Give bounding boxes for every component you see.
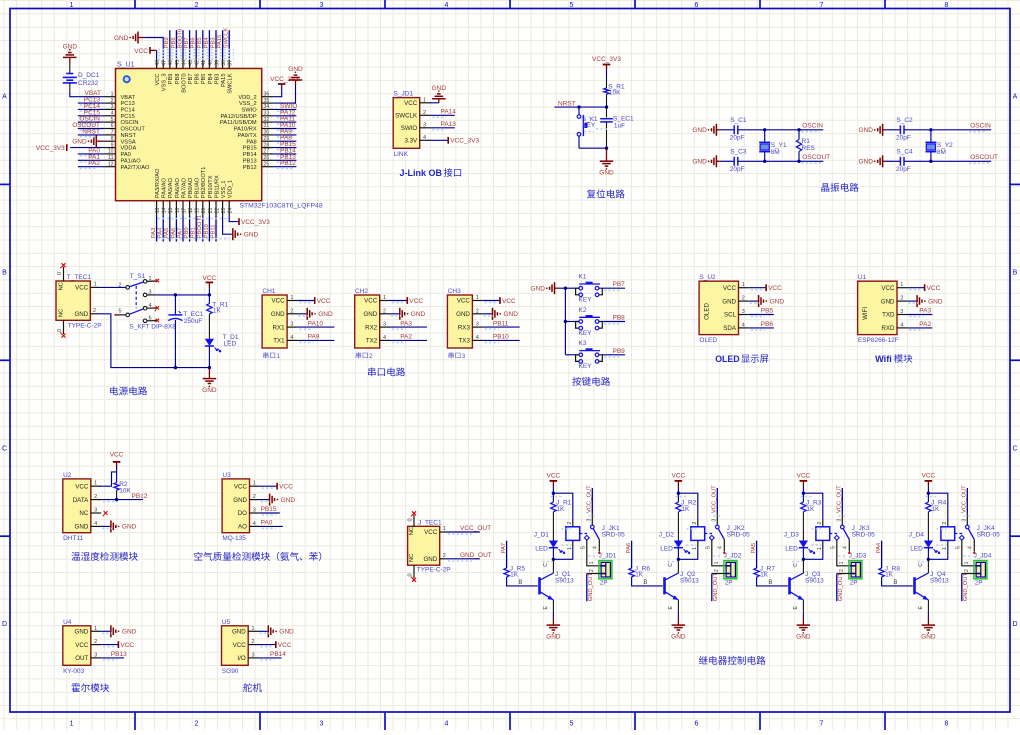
svg-text:48: 48: [155, 60, 161, 66]
switch stub pin 6 (nc): [147, 320, 157, 322]
svg-text:24: 24: [228, 208, 234, 214]
wire emitter to ground: [552, 600, 554, 612]
net label PA14: [430, 114, 455, 116]
net VCC at top (pin 48): [150, 49, 157, 51]
svg-text:BOOT0: BOOT0: [177, 29, 183, 49]
svg-text:RX1: RX1: [273, 324, 286, 331]
net label OSCOUT + wire: [78, 128, 104, 130]
svg-text:TX2: TX2: [366, 338, 378, 345]
resistor J_R2 1K: [677, 493, 679, 502]
net label PA10: [297, 326, 334, 328]
svg-text:4: 4: [253, 521, 256, 527]
svg-text:PB1: PB1: [191, 227, 197, 238]
pin 4 RXD: [897, 327, 907, 329]
svg-text:GND: GND: [411, 311, 426, 318]
svg-text:PA2/TX/AO: PA2/TX/AO: [121, 165, 151, 171]
svg-text:PA0: PA0: [121, 152, 131, 158]
svg-text:4: 4: [718, 546, 724, 549]
svg-text:35: 35: [264, 98, 270, 104]
wire base: [507, 577, 538, 586]
svg-text:2: 2: [94, 494, 97, 500]
power ground: [101, 630, 110, 632]
caption button circuit: [572, 377, 581, 386]
wire base: [882, 577, 913, 586]
svg-text:VCC: VCC: [155, 74, 161, 86]
svg-text:20pF: 20pF: [896, 166, 911, 173]
svg-text:4: 4: [476, 335, 479, 341]
svg-text:STM32F103C8T6_LQFP48: STM32F103C8T6_LQFP48: [240, 203, 323, 210]
svg-text:GND: GND: [796, 633, 811, 640]
svg-text:PB5: PB5: [761, 308, 774, 315]
svg-text:A: A: [1013, 94, 1018, 101]
svg-text:PA4/AO: PA4/AO: [162, 177, 168, 198]
svg-text:SWIO: SWIO: [242, 108, 258, 114]
svg-text:J_JD3: J_JD3: [849, 553, 867, 560]
pin 2 VCC: [248, 644, 258, 646]
svg-text:1: 1: [817, 547, 823, 550]
net label PA1 + wire: [78, 159, 104, 161]
power ground: [907, 300, 916, 302]
svg-text:VCC: VCC: [457, 298, 471, 305]
svg-text:WIFI: WIFI: [862, 307, 869, 320]
svg-text:31: 31: [264, 123, 270, 129]
svg-text:1: 1: [423, 97, 426, 103]
pin 1 VCC: [91, 485, 101, 487]
net label PA11 + wire: [273, 121, 296, 123]
svg-text:3: 3: [320, 721, 324, 728]
svg-text:GND: GND: [72, 139, 87, 146]
svg-text:PA7: PA7: [177, 228, 183, 239]
svg-text:GND: GND: [279, 629, 294, 636]
key S_K1 KEY: [577, 105, 580, 108]
wire VCC node to relay coil: [678, 493, 697, 520]
module U5 SG90 servo: [222, 626, 249, 666]
svg-text:VCC_OUT: VCC_OUT: [460, 525, 491, 532]
svg-text:GND: GND: [722, 298, 736, 305]
svg-text:GND: GND: [114, 35, 129, 42]
net label PB7 + wire: [189, 30, 191, 58]
svg-text:1K: 1K: [885, 571, 894, 578]
no-connect stub bottom of J_TEC1: [413, 565, 415, 578]
svg-text:27: 27: [264, 149, 270, 155]
svg-text:PB8: PB8: [613, 315, 626, 322]
svg-text:2: 2: [964, 569, 970, 572]
no-connect stub bottom of T_TEC1: [63, 320, 65, 334]
net label PB15 + wire: [273, 147, 296, 149]
pin 18 PB0/AO: [189, 201, 191, 216]
svg-text:43: 43: [188, 60, 194, 66]
power ground at top (pin 47 VSS_3): [138, 37, 144, 39]
svg-text:VCC: VCC: [723, 285, 737, 292]
pin 3 TXD: [897, 314, 907, 316]
pin 1 VCC: [420, 102, 431, 104]
svg-text:U4: U4: [63, 619, 72, 626]
svg-text:2P: 2P: [850, 579, 858, 586]
svg-text:13: 13: [155, 208, 161, 214]
svg-text:GND: GND: [546, 633, 561, 640]
svg-text:PB4: PB4: [204, 37, 210, 49]
wire PB8: [602, 321, 625, 323]
svg-text:D_DC1: D_DC1: [78, 72, 100, 79]
svg-text:PB11/RX: PB11/RX: [214, 175, 220, 198]
transistor J_Q4 S9013: [913, 577, 916, 594]
svg-text:GND: GND: [456, 311, 470, 318]
svg-text:OSCOUT: OSCOUT: [121, 127, 146, 133]
pin 44 BOOT0: [182, 58, 184, 68]
svg-text:8: 8: [945, 2, 949, 9]
svg-text:2P: 2P: [975, 579, 983, 586]
pin 17 PA7/AO: [182, 201, 184, 216]
net label PA12 + wire: [273, 115, 296, 117]
pin 1 GND: [91, 630, 101, 632]
net label PB6 + wire: [195, 30, 197, 58]
svg-text:1: 1: [589, 561, 595, 564]
capacitor S_C3 20pF: [719, 160, 734, 162]
net VCC_3V3 at pin 9 VDDA: [70, 147, 104, 149]
svg-text:GND: GND: [271, 311, 285, 318]
relay coil J_JK4 SRD-05: [941, 527, 955, 541]
svg-text:2: 2: [93, 308, 96, 314]
svg-text:OLED: OLED: [704, 303, 711, 320]
caption crystal circuit: [821, 183, 829, 191]
pin 42 PB6: [195, 58, 197, 68]
net label PA4 + wire: [162, 215, 164, 241]
svg-text:PA4: PA4: [158, 227, 164, 238]
pin 2 GND: [897, 300, 907, 302]
svg-text:NRST: NRST: [121, 133, 137, 139]
svg-text:20: 20: [201, 208, 207, 214]
svg-text:VCC: VCC: [364, 298, 378, 305]
wire PB7: [602, 287, 625, 289]
svg-text:2: 2: [253, 494, 256, 500]
svg-text:5: 5: [111, 117, 114, 123]
net label PA9 + wire: [273, 134, 296, 136]
svg-text:0: 0: [57, 272, 63, 275]
svg-text:PA15: PA15: [221, 74, 227, 88]
crystal S_Y1 8M: [763, 128, 766, 131]
svg-text:2: 2: [383, 308, 386, 314]
caption temperature-humidity module: [71, 552, 80, 561]
svg-text:VCC: VCC: [279, 484, 293, 491]
svg-text:PB13: PB13: [243, 158, 257, 164]
battery GND: [69, 57, 71, 63]
svg-text:PB12: PB12: [132, 493, 148, 500]
svg-text:PB12: PB12: [280, 160, 296, 167]
net label SWIO + wire: [273, 108, 296, 110]
LED J_D3: [799, 541, 808, 548]
svg-text:VCC: VCC: [234, 483, 248, 490]
svg-text:10K: 10K: [119, 487, 131, 494]
pin 39 PB3: [215, 58, 217, 68]
svg-text:PB0: PB0: [184, 227, 190, 238]
svg-text:GND_OUT: GND_OUT: [838, 572, 844, 601]
svg-text:S_U2: S_U2: [699, 274, 716, 281]
net label PB10 + wire: [208, 215, 210, 241]
svg-text:1: 1: [111, 91, 114, 97]
wire contact to connector pin 1: [837, 540, 851, 566]
svg-text:VCC: VCC: [409, 298, 423, 305]
pin 40 PB4: [208, 58, 210, 68]
power ground: [483, 313, 492, 315]
svg-text:1: 1: [692, 547, 698, 550]
svg-text:4: 4: [290, 335, 293, 341]
svg-text:J_D4: J_D4: [909, 532, 925, 539]
svg-text:38: 38: [221, 60, 227, 66]
pin 9 VDDA: [104, 147, 115, 149]
net label PC14 + wire: [78, 108, 104, 110]
svg-text:11: 11: [108, 155, 113, 161]
svg-text:NC: NC: [59, 282, 65, 290]
svg-text:OSCIN: OSCIN: [802, 122, 823, 129]
net label PA10 + wire: [273, 128, 296, 130]
svg-text:C: C: [1012, 445, 1017, 452]
power ground: [297, 313, 306, 315]
svg-text:VSSA: VSSA: [121, 139, 136, 145]
net label PA13: [430, 127, 455, 129]
svg-text:12: 12: [108, 161, 114, 167]
contact pin 4 stub (nc): [973, 540, 975, 552]
svg-text:1K: 1K: [806, 506, 815, 513]
svg-text:1: 1: [277, 353, 281, 360]
svg-text:7: 7: [820, 721, 824, 728]
svg-text:PA14: PA14: [441, 109, 457, 116]
svg-text:1: 1: [290, 295, 293, 301]
resistor J_R6 1K: [629, 568, 634, 577]
net label PB8 + wire: [175, 30, 177, 58]
caption air quality module: [194, 552, 202, 561]
svg-text:0: 0: [408, 573, 414, 576]
svg-text:GND: GND: [692, 159, 707, 166]
svg-text:KY-003: KY-003: [63, 668, 84, 675]
svg-text:VCC: VCC: [881, 285, 895, 292]
caption servo: [243, 683, 252, 692]
svg-text:4: 4: [445, 721, 449, 728]
svg-text:PC15: PC15: [121, 114, 135, 120]
pin 2 GND: [739, 300, 749, 302]
net GND_OUT relay 1: [587, 573, 601, 575]
svg-text:GND: GND: [859, 127, 874, 134]
svg-text:2: 2: [111, 98, 114, 104]
svg-text:S_EC1: S_EC1: [613, 115, 634, 122]
svg-text:8: 8: [945, 721, 949, 728]
svg-text:GND: GND: [432, 85, 447, 92]
wire OSCIN: [738, 129, 824, 131]
svg-text:J_TEC1: J_TEC1: [418, 520, 442, 527]
svg-text:3: 3: [423, 122, 426, 128]
wire emitter to ground: [927, 600, 929, 612]
svg-text:1K: 1K: [213, 308, 222, 315]
caption relay control circuit: [699, 656, 708, 664]
pin 3 OUT: [91, 657, 101, 659]
svg-text:PA11/USB/DM: PA11/USB/DM: [220, 120, 257, 126]
svg-text:BOOT0: BOOT0: [181, 74, 187, 93]
pin 19 PB1/AO: [195, 201, 197, 216]
svg-text:33: 33: [264, 111, 270, 117]
net label NRST + wire: [78, 134, 104, 136]
svg-text:GND: GND: [244, 232, 259, 239]
svg-text:25: 25: [264, 161, 270, 167]
net label PA2: [390, 339, 427, 341]
svg-text:PA13: PA13: [441, 121, 457, 128]
no-connect stub top of T_TEC1: [63, 267, 65, 281]
net label PB3 + wire: [215, 30, 217, 58]
pin 13 PA3/RX/AO: [156, 201, 158, 216]
svg-text:U5: U5: [222, 619, 231, 626]
ground at pin 23 VSS_1: [223, 215, 232, 234]
svg-text:1: 1: [964, 561, 970, 564]
key K2 KEY: [565, 321, 579, 323]
caption hall module: [71, 683, 79, 692]
svg-text:D: D: [2, 621, 7, 628]
svg-text:PA6/AO: PA6/AO: [175, 177, 181, 198]
svg-text:PB11: PB11: [210, 225, 216, 239]
caption reset circuit: [587, 189, 596, 198]
svg-text:PA8: PA8: [246, 139, 256, 145]
LED J_D2: [674, 541, 683, 548]
net label PA7 + wire: [182, 215, 184, 241]
net label PB13: [101, 657, 124, 659]
svg-text:46: 46: [168, 60, 174, 66]
resistor T_R1 1K: [208, 295, 210, 304]
svg-text:LED: LED: [224, 340, 237, 347]
pin 32 PA11/USB/DM: [262, 121, 273, 123]
svg-text:GND: GND: [75, 629, 89, 636]
svg-text:5: 5: [831, 546, 837, 549]
svg-text:DHT11: DHT11: [63, 535, 83, 542]
net label PA2: [907, 327, 932, 329]
svg-text:PB11: PB11: [493, 320, 509, 327]
pin 3 RX2: [380, 326, 390, 328]
net label PA9: [297, 339, 334, 341]
svg-text:VCC: VCC: [75, 642, 89, 649]
net label BOOT0 + wire: [182, 30, 184, 58]
svg-text:40: 40: [208, 60, 214, 66]
svg-text:1K: 1K: [760, 571, 769, 578]
net VCC_3V3 at S_JD1 pin 4: [430, 139, 448, 141]
svg-text:NRST: NRST: [82, 128, 100, 135]
relay coil J_JK1 SRD-05: [566, 527, 580, 541]
svg-text:1: 1: [253, 481, 256, 487]
capacitor S_C2 20pF: [886, 129, 901, 131]
wire button bus: [564, 288, 566, 355]
svg-text:20pF: 20pF: [730, 166, 745, 173]
svg-text:2: 2: [252, 639, 255, 645]
net label PA6 input: [631, 541, 633, 568]
svg-text:18: 18: [188, 208, 194, 214]
no-connect pin: [104, 511, 108, 515]
pin 10 PA0: [104, 153, 115, 155]
svg-text:3: 3: [742, 309, 745, 315]
svg-text:U3: U3: [222, 472, 231, 479]
svg-text:PA3: PA3: [151, 228, 157, 239]
svg-text:GND: GND: [530, 286, 545, 293]
svg-text:PB8: PB8: [175, 74, 181, 85]
wire contact to connector pin 1: [587, 540, 601, 566]
svg-text:J_D2: J_D2: [659, 532, 675, 539]
svg-text:VCC: VCC: [672, 473, 686, 480]
resistor R2 10K: [114, 483, 119, 491]
svg-text:2: 2: [195, 2, 199, 9]
svg-text:GND: GND: [233, 497, 247, 504]
pin 41 PB5: [202, 58, 204, 68]
resistor J_R3 1K: [802, 493, 804, 502]
svg-text:3: 3: [253, 508, 256, 514]
svg-text:1K: 1K: [510, 571, 519, 578]
ground relay 3: [802, 618, 804, 626]
capacitor T_EC1 250uF: [174, 295, 176, 315]
net GND_OUT relay 3: [837, 573, 851, 575]
transistor J_Q1 S9013: [538, 577, 541, 594]
svg-text:PB1/AO: PB1/AO: [195, 177, 201, 198]
svg-text:C: C: [668, 563, 674, 567]
net label PBOOT1 + wire: [202, 215, 204, 241]
connector CH2 serial port: [355, 295, 380, 348]
net label PB1 + wire: [195, 215, 197, 241]
svg-text:GND: GND: [599, 169, 614, 176]
svg-text:36: 36: [264, 91, 270, 97]
svg-text:S9013: S9013: [555, 578, 574, 585]
capacitor S_EC1 1uF: [606, 107, 608, 117]
svg-text:2P: 2P: [725, 579, 733, 586]
svg-text:2: 2: [118, 282, 121, 288]
svg-text:NC: NC: [59, 309, 65, 317]
svg-text:C: C: [793, 563, 799, 567]
svg-text:S_C4: S_C4: [896, 148, 913, 155]
pin 1 GND: [248, 630, 258, 632]
svg-text:1: 1: [443, 526, 446, 532]
svg-text:1: 1: [252, 626, 255, 632]
svg-text:3: 3: [711, 519, 717, 522]
no-connect stub top of J_TEC1: [413, 515, 415, 526]
svg-text:19: 19: [195, 208, 201, 214]
wire contact to connector pin 1: [962, 540, 976, 566]
svg-text:TYPE-C-2P: TYPE-C-2P: [68, 322, 102, 329]
resistor J_R7 1K: [754, 568, 759, 577]
wire VCC node to relay coil: [928, 493, 947, 520]
svg-text:45: 45: [175, 60, 181, 66]
svg-text:PA5: PA5: [164, 228, 170, 239]
svg-text:PB3: PB3: [210, 37, 216, 48]
svg-text:3: 3: [94, 652, 97, 658]
net label PB11: [483, 326, 520, 328]
svg-text:4: 4: [968, 546, 974, 549]
LED J_D1: [549, 541, 558, 548]
svg-text:TXD: TXD: [882, 312, 895, 319]
pin 2 DATA: [91, 499, 101, 501]
pin 37 SWCLK: [228, 58, 230, 68]
svg-text:1: 1: [94, 626, 97, 632]
wire collector: [927, 559, 929, 573]
svg-text:SG90: SG90: [222, 668, 239, 675]
svg-text:3: 3: [586, 519, 592, 522]
svg-text:PB10: PB10: [493, 334, 509, 341]
svg-text:GND: GND: [202, 387, 217, 394]
wire collector: [802, 559, 804, 573]
svg-text:GND: GND: [122, 524, 137, 531]
net label PA0: [260, 525, 283, 527]
svg-text:6: 6: [695, 2, 699, 9]
svg-text:23: 23: [221, 208, 227, 214]
net VCC: [297, 300, 314, 302]
svg-text:GND: GND: [122, 629, 137, 636]
svg-text:VDD_2: VDD_2: [238, 95, 256, 101]
svg-text:PB10/TX: PB10/TX: [208, 175, 214, 198]
power ground (OSCOUT side): [716, 160, 719, 162]
svg-text:VCC: VCC: [278, 642, 292, 649]
switch stub pin 4 (nc): [147, 307, 157, 309]
svg-text:PB14: PB14: [243, 152, 257, 158]
svg-text:A: A: [2, 94, 7, 101]
